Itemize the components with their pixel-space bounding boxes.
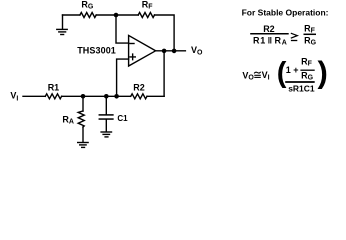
svg-text:VO: VO [191,45,203,57]
svg-text:R2: R2 [263,24,275,34]
svg-text:sR1C1: sR1C1 [288,83,315,93]
svg-text:RF: RF [142,0,154,11]
svg-text:RF: RF [304,23,316,34]
svg-text:R1: R1 [48,82,60,92]
svg-text:R1‖RA: R1‖RA [253,36,287,47]
svg-text:R2: R2 [133,82,145,92]
svg-text:RG: RG [304,35,317,46]
svg-text:THS3001: THS3001 [77,45,116,55]
svg-text:RG: RG [301,71,314,82]
svg-text:VO: VO [242,70,254,81]
svg-text:): ) [318,54,328,89]
svg-text:VI: VI [10,91,18,103]
svg-text:RA: RA [62,114,74,125]
svg-text:RF: RF [301,57,313,68]
svg-text:1 +: 1 + [286,65,299,75]
svg-text:C1: C1 [117,114,128,123]
svg-text:RG: RG [81,0,94,11]
svg-text:VI: VI [262,70,270,82]
svg-text:For Stable Operation:: For Stable Operation: [242,7,329,17]
svg-text:(: ( [277,57,287,89]
